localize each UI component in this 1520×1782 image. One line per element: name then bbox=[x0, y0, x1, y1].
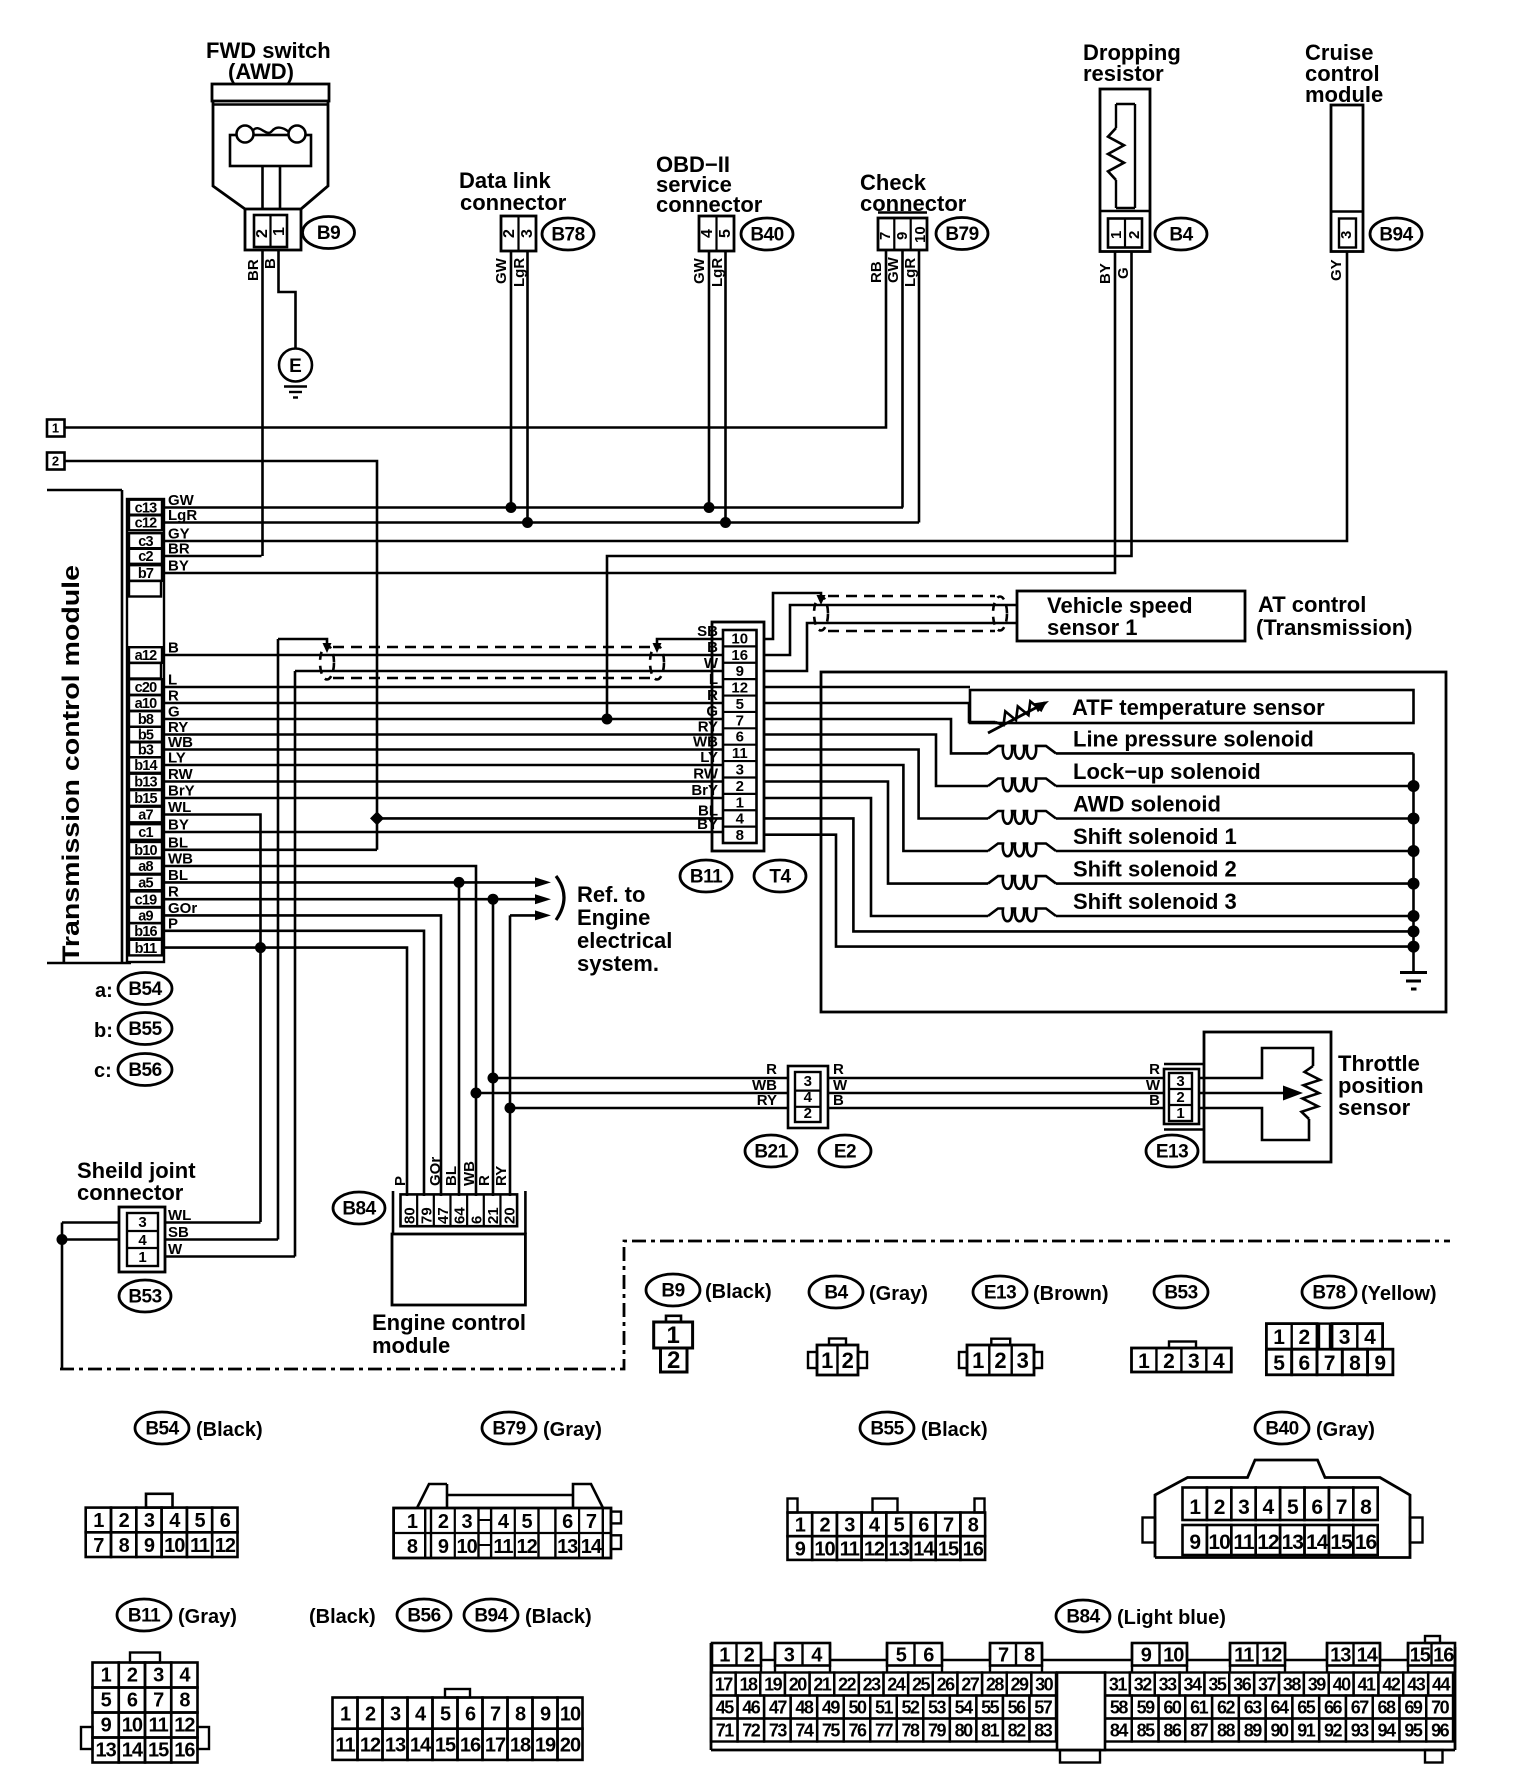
svg-text:16: 16 bbox=[1355, 1531, 1377, 1554]
svg-text:66: 66 bbox=[1324, 1698, 1343, 1718]
svg-text:1: 1 bbox=[93, 1510, 104, 1532]
svg-text:13: 13 bbox=[557, 1536, 578, 1558]
svg-text:11: 11 bbox=[1234, 1645, 1254, 1667]
svg-text:RY: RY bbox=[493, 1166, 510, 1186]
svg-text:10: 10 bbox=[731, 630, 748, 647]
svg-text:b16: b16 bbox=[134, 924, 157, 940]
svg-text:E2: E2 bbox=[834, 1142, 856, 1163]
svg-text:b10: b10 bbox=[134, 843, 157, 859]
svg-text:80: 80 bbox=[402, 1207, 419, 1224]
svg-text:2: 2 bbox=[819, 1515, 830, 1537]
svg-text:14: 14 bbox=[1357, 1645, 1379, 1667]
svg-text:3: 3 bbox=[1188, 1350, 1200, 1373]
svg-text:1: 1 bbox=[271, 227, 288, 236]
svg-text:W: W bbox=[704, 655, 719, 672]
svg-text:b14: b14 bbox=[134, 758, 157, 774]
svg-text:34: 34 bbox=[1183, 1675, 1202, 1695]
svg-text:10: 10 bbox=[1208, 1531, 1230, 1554]
svg-text:B11: B11 bbox=[128, 1606, 161, 1627]
svg-text:b11: b11 bbox=[135, 941, 158, 957]
svg-text:7: 7 bbox=[153, 1690, 164, 1712]
svg-text:13: 13 bbox=[385, 1735, 406, 1757]
svg-text:49: 49 bbox=[822, 1698, 841, 1718]
svg-text:47: 47 bbox=[435, 1207, 452, 1224]
svg-text:53: 53 bbox=[928, 1698, 947, 1718]
svg-text:B: B bbox=[707, 639, 718, 656]
svg-text:AT control: AT control bbox=[1258, 592, 1366, 617]
svg-text:40: 40 bbox=[1333, 1675, 1352, 1695]
svg-text:ATF temperature sensor: ATF temperature sensor bbox=[1072, 695, 1325, 720]
svg-text:6: 6 bbox=[918, 1515, 929, 1537]
svg-text:85: 85 bbox=[1137, 1721, 1156, 1741]
svg-text:BY: BY bbox=[697, 816, 718, 833]
svg-text:b15: b15 bbox=[134, 791, 157, 807]
svg-text:BL: BL bbox=[443, 1166, 460, 1186]
svg-text:23: 23 bbox=[863, 1675, 882, 1695]
svg-text:20: 20 bbox=[789, 1675, 808, 1695]
svg-text:84: 84 bbox=[1110, 1721, 1129, 1741]
svg-text:82: 82 bbox=[1008, 1721, 1027, 1741]
svg-text:7: 7 bbox=[1336, 1496, 1347, 1519]
svg-text:31: 31 bbox=[1109, 1675, 1128, 1695]
svg-text:5: 5 bbox=[1287, 1496, 1299, 1519]
svg-text:9: 9 bbox=[894, 232, 911, 240]
svg-text:15: 15 bbox=[1410, 1645, 1431, 1667]
svg-text:7: 7 bbox=[998, 1645, 1009, 1667]
svg-text:3: 3 bbox=[804, 1073, 812, 1090]
svg-text:3: 3 bbox=[390, 1703, 401, 1725]
svg-text:2: 2 bbox=[119, 1510, 130, 1532]
svg-text:(Brown): (Brown) bbox=[1033, 1283, 1109, 1305]
svg-text:8: 8 bbox=[1349, 1352, 1361, 1375]
svg-text:22: 22 bbox=[838, 1675, 857, 1695]
svg-text:R: R bbox=[1149, 1061, 1160, 1078]
svg-text:3: 3 bbox=[736, 761, 744, 778]
svg-text:44: 44 bbox=[1432, 1675, 1451, 1695]
svg-text:GOr: GOr bbox=[427, 1157, 444, 1186]
svg-text:9: 9 bbox=[144, 1535, 155, 1557]
svg-text:21: 21 bbox=[813, 1675, 832, 1695]
svg-text:63: 63 bbox=[1244, 1698, 1263, 1718]
svg-text:3: 3 bbox=[519, 229, 536, 238]
svg-text:8: 8 bbox=[1360, 1496, 1372, 1519]
svg-text:43: 43 bbox=[1407, 1675, 1426, 1695]
svg-text:B56: B56 bbox=[407, 1606, 440, 1627]
svg-text:2: 2 bbox=[127, 1665, 138, 1687]
svg-text:20: 20 bbox=[560, 1735, 581, 1757]
svg-text:5: 5 bbox=[736, 696, 744, 713]
svg-text:b13: b13 bbox=[134, 775, 157, 791]
svg-text:(Black): (Black) bbox=[196, 1419, 263, 1441]
svg-text:4: 4 bbox=[1213, 1350, 1225, 1373]
svg-text:15: 15 bbox=[148, 1740, 169, 1762]
svg-text:8: 8 bbox=[968, 1515, 979, 1537]
svg-text:72: 72 bbox=[742, 1721, 761, 1741]
svg-text:B84: B84 bbox=[1066, 1607, 1100, 1628]
svg-text:64: 64 bbox=[1270, 1698, 1289, 1718]
svg-text:5: 5 bbox=[1273, 1352, 1285, 1375]
svg-text:2: 2 bbox=[438, 1511, 449, 1533]
svg-text:33: 33 bbox=[1159, 1675, 1178, 1695]
svg-text:12: 12 bbox=[731, 680, 748, 697]
svg-text:B55: B55 bbox=[870, 1419, 904, 1440]
svg-text:7: 7 bbox=[943, 1515, 954, 1537]
svg-text:B53: B53 bbox=[1164, 1283, 1197, 1304]
svg-text:1: 1 bbox=[1138, 1350, 1150, 1373]
svg-text:3: 3 bbox=[153, 1665, 164, 1687]
svg-text:B9: B9 bbox=[317, 223, 340, 244]
svg-text:Engine: Engine bbox=[577, 905, 650, 930]
svg-text:93: 93 bbox=[1351, 1721, 1370, 1741]
svg-text:38: 38 bbox=[1283, 1675, 1302, 1695]
svg-text:70: 70 bbox=[1431, 1698, 1450, 1718]
svg-text:2: 2 bbox=[744, 1645, 755, 1667]
svg-text:2: 2 bbox=[52, 454, 59, 469]
svg-text:b:: b: bbox=[94, 1020, 113, 1042]
svg-text:B: B bbox=[262, 258, 279, 269]
svg-text:Transmission control module: Transmission control module bbox=[58, 565, 85, 963]
svg-text:71: 71 bbox=[716, 1721, 735, 1741]
svg-text:1: 1 bbox=[52, 421, 59, 436]
svg-text:58: 58 bbox=[1110, 1698, 1129, 1718]
svg-text:1: 1 bbox=[101, 1665, 112, 1687]
svg-text:B78: B78 bbox=[1312, 1283, 1345, 1304]
svg-text:1: 1 bbox=[719, 1645, 730, 1667]
svg-text:12: 12 bbox=[1257, 1531, 1279, 1554]
svg-text:11: 11 bbox=[335, 1735, 355, 1757]
svg-text:1: 1 bbox=[736, 794, 744, 811]
svg-text:6: 6 bbox=[923, 1645, 934, 1667]
svg-text:3: 3 bbox=[462, 1511, 473, 1533]
svg-text:39: 39 bbox=[1308, 1675, 1327, 1695]
svg-text:6: 6 bbox=[736, 729, 744, 746]
svg-text:5: 5 bbox=[896, 1645, 907, 1667]
svg-text:96: 96 bbox=[1431, 1721, 1450, 1741]
svg-text:12: 12 bbox=[516, 1536, 537, 1558]
svg-text:(Black): (Black) bbox=[525, 1606, 592, 1628]
svg-text:24: 24 bbox=[887, 1675, 906, 1695]
svg-text:B40: B40 bbox=[1265, 1419, 1298, 1440]
svg-text:6: 6 bbox=[468, 1216, 485, 1224]
svg-text:5: 5 bbox=[101, 1690, 112, 1712]
svg-text:36: 36 bbox=[1233, 1675, 1252, 1695]
svg-text:L: L bbox=[709, 671, 718, 688]
svg-text:1: 1 bbox=[138, 1249, 146, 1266]
svg-text:c20: c20 bbox=[135, 680, 158, 696]
svg-text:4: 4 bbox=[1364, 1326, 1376, 1349]
svg-text:B79: B79 bbox=[492, 1419, 525, 1440]
svg-text:41: 41 bbox=[1357, 1675, 1376, 1695]
svg-text:WB: WB bbox=[693, 734, 718, 751]
svg-text:E13: E13 bbox=[1156, 1142, 1188, 1163]
svg-text:2: 2 bbox=[501, 229, 518, 238]
svg-text:(Black): (Black) bbox=[921, 1419, 988, 1441]
svg-text:B9: B9 bbox=[661, 1281, 684, 1302]
svg-text:LgR: LgR bbox=[902, 258, 919, 287]
svg-text:88: 88 bbox=[1217, 1721, 1236, 1741]
svg-text:11: 11 bbox=[190, 1535, 210, 1557]
svg-text:1: 1 bbox=[1176, 1105, 1184, 1122]
svg-text:64: 64 bbox=[452, 1207, 469, 1224]
svg-text:9: 9 bbox=[101, 1715, 112, 1737]
svg-text:14: 14 bbox=[913, 1538, 935, 1560]
svg-text:9: 9 bbox=[1374, 1352, 1386, 1375]
svg-text:(Black): (Black) bbox=[705, 1281, 772, 1303]
svg-text:a8: a8 bbox=[138, 859, 153, 875]
svg-text:Shift solenoid 3: Shift solenoid 3 bbox=[1073, 889, 1237, 914]
svg-text:c12: c12 bbox=[135, 516, 158, 532]
svg-text:Shift solenoid 1: Shift solenoid 1 bbox=[1073, 824, 1237, 849]
svg-text:4: 4 bbox=[1263, 1496, 1275, 1519]
svg-text:B94: B94 bbox=[474, 1606, 508, 1627]
svg-text:92: 92 bbox=[1324, 1721, 1343, 1741]
svg-text:62: 62 bbox=[1217, 1698, 1236, 1718]
svg-text:3: 3 bbox=[784, 1645, 795, 1667]
svg-text:8: 8 bbox=[515, 1703, 526, 1725]
svg-text:51: 51 bbox=[875, 1698, 894, 1718]
svg-text:R: R bbox=[707, 687, 718, 704]
svg-text:c19: c19 bbox=[135, 892, 158, 908]
svg-text:30: 30 bbox=[1035, 1675, 1054, 1695]
svg-text:B4: B4 bbox=[824, 1283, 848, 1304]
svg-text:57: 57 bbox=[1034, 1698, 1053, 1718]
svg-text:3: 3 bbox=[1339, 1326, 1351, 1349]
svg-text:LgR: LgR bbox=[709, 258, 726, 287]
svg-text:61: 61 bbox=[1190, 1698, 1209, 1718]
svg-text:21: 21 bbox=[485, 1207, 502, 1224]
svg-text:10: 10 bbox=[560, 1703, 581, 1725]
svg-text:15: 15 bbox=[938, 1538, 959, 1560]
svg-text:11: 11 bbox=[732, 745, 748, 762]
svg-text:a10: a10 bbox=[135, 696, 158, 712]
svg-text:16: 16 bbox=[731, 647, 748, 664]
svg-text:9: 9 bbox=[1141, 1645, 1152, 1667]
svg-text:BY: BY bbox=[1097, 263, 1114, 284]
svg-text:46: 46 bbox=[742, 1698, 761, 1718]
svg-text:B54: B54 bbox=[128, 979, 162, 1000]
svg-text:13: 13 bbox=[889, 1538, 910, 1560]
svg-text:47: 47 bbox=[769, 1698, 788, 1718]
svg-text:26: 26 bbox=[937, 1675, 956, 1695]
svg-text:89: 89 bbox=[1244, 1721, 1263, 1741]
svg-text:3: 3 bbox=[138, 1214, 146, 1231]
svg-text:sensor 1: sensor 1 bbox=[1047, 615, 1138, 640]
svg-text:17: 17 bbox=[485, 1735, 506, 1757]
svg-text:3: 3 bbox=[1176, 1073, 1184, 1090]
svg-text:16: 16 bbox=[963, 1538, 984, 1560]
svg-text:5: 5 bbox=[717, 229, 734, 238]
svg-text:14: 14 bbox=[1306, 1531, 1329, 1554]
svg-text:(Gray): (Gray) bbox=[869, 1283, 928, 1305]
svg-text:11: 11 bbox=[840, 1538, 860, 1560]
svg-text:7: 7 bbox=[1324, 1352, 1336, 1375]
svg-text:Lock−up solenoid: Lock−up solenoid bbox=[1073, 759, 1261, 784]
svg-text:19: 19 bbox=[535, 1735, 556, 1757]
svg-text:RW: RW bbox=[693, 766, 719, 783]
svg-text:12: 12 bbox=[360, 1735, 381, 1757]
svg-text:(Light blue): (Light blue) bbox=[1117, 1607, 1226, 1629]
svg-text:1: 1 bbox=[667, 1322, 680, 1349]
svg-text:a12: a12 bbox=[135, 648, 158, 664]
svg-text:10: 10 bbox=[164, 1535, 185, 1557]
svg-text:86: 86 bbox=[1163, 1721, 1182, 1741]
svg-text:59: 59 bbox=[1137, 1698, 1156, 1718]
svg-text:G: G bbox=[1115, 267, 1132, 279]
svg-text:9: 9 bbox=[795, 1538, 806, 1560]
svg-text:50: 50 bbox=[848, 1698, 867, 1718]
svg-text:BrY: BrY bbox=[691, 782, 718, 799]
svg-text:9: 9 bbox=[438, 1536, 449, 1558]
svg-text:48: 48 bbox=[795, 1698, 814, 1718]
svg-text:6: 6 bbox=[1299, 1352, 1311, 1375]
svg-text:79: 79 bbox=[928, 1721, 947, 1741]
svg-text:42: 42 bbox=[1382, 1675, 1401, 1695]
svg-text:(AWD): (AWD) bbox=[228, 59, 294, 84]
svg-text:Engine control: Engine control bbox=[372, 1310, 526, 1335]
svg-text:c1: c1 bbox=[138, 825, 153, 841]
svg-text:29: 29 bbox=[1011, 1675, 1030, 1695]
svg-text:3: 3 bbox=[144, 1510, 155, 1532]
svg-text:10: 10 bbox=[122, 1715, 143, 1737]
svg-text:10: 10 bbox=[814, 1538, 835, 1560]
svg-text:B78: B78 bbox=[551, 225, 584, 246]
svg-text:7: 7 bbox=[736, 712, 744, 729]
svg-text:Line pressure solenoid: Line pressure solenoid bbox=[1073, 726, 1314, 751]
svg-text:LY: LY bbox=[700, 749, 718, 766]
svg-text:6: 6 bbox=[562, 1511, 573, 1533]
svg-text:15: 15 bbox=[435, 1735, 456, 1757]
svg-text:(Gray): (Gray) bbox=[543, 1419, 602, 1441]
svg-text:13: 13 bbox=[1282, 1531, 1304, 1554]
svg-text:R: R bbox=[833, 1061, 844, 1078]
svg-text:B53: B53 bbox=[128, 1287, 161, 1308]
svg-text:2: 2 bbox=[804, 1105, 812, 1122]
svg-text:5: 5 bbox=[522, 1511, 533, 1533]
svg-text:B11: B11 bbox=[690, 867, 723, 888]
svg-text:14: 14 bbox=[410, 1735, 432, 1757]
svg-text:2: 2 bbox=[1214, 1496, 1225, 1519]
svg-text:60: 60 bbox=[1163, 1698, 1182, 1718]
svg-text:LgR: LgR bbox=[511, 258, 528, 287]
svg-text:94: 94 bbox=[1378, 1721, 1397, 1741]
svg-text:8: 8 bbox=[407, 1536, 418, 1558]
svg-text:16: 16 bbox=[1433, 1645, 1454, 1667]
svg-text:1: 1 bbox=[1108, 231, 1125, 239]
svg-text:95: 95 bbox=[1404, 1721, 1423, 1741]
svg-text:2: 2 bbox=[842, 1348, 854, 1373]
svg-text:6: 6 bbox=[465, 1703, 476, 1725]
svg-text:P: P bbox=[392, 1176, 409, 1186]
svg-text:AWD solenoid: AWD solenoid bbox=[1073, 792, 1221, 817]
svg-text:2: 2 bbox=[736, 778, 744, 795]
svg-text:BY: BY bbox=[168, 558, 189, 575]
svg-text:17: 17 bbox=[715, 1675, 734, 1695]
svg-text:B: B bbox=[1149, 1092, 1160, 1109]
svg-text:16: 16 bbox=[174, 1740, 195, 1762]
svg-text:10: 10 bbox=[912, 226, 929, 243]
svg-text:RB: RB bbox=[868, 261, 885, 283]
svg-text:7: 7 bbox=[93, 1535, 104, 1557]
svg-text:20: 20 bbox=[502, 1207, 519, 1224]
svg-text:45: 45 bbox=[716, 1698, 735, 1718]
svg-text:8: 8 bbox=[119, 1535, 130, 1557]
svg-text:37: 37 bbox=[1258, 1675, 1277, 1695]
svg-text:GY: GY bbox=[1328, 259, 1345, 281]
svg-text:27: 27 bbox=[961, 1675, 980, 1695]
svg-text:32: 32 bbox=[1134, 1675, 1153, 1695]
svg-text:electrical: electrical bbox=[577, 928, 672, 953]
svg-text:1: 1 bbox=[821, 1348, 833, 1373]
svg-text:11: 11 bbox=[493, 1536, 513, 1558]
svg-text:11: 11 bbox=[1233, 1531, 1255, 1554]
svg-text:3: 3 bbox=[844, 1515, 855, 1537]
svg-text:78: 78 bbox=[902, 1721, 921, 1741]
svg-text:9: 9 bbox=[540, 1703, 551, 1725]
svg-text:RY: RY bbox=[757, 1092, 777, 1109]
svg-text:16: 16 bbox=[460, 1735, 481, 1757]
svg-text:2: 2 bbox=[254, 229, 271, 238]
svg-text:G: G bbox=[706, 703, 718, 720]
svg-text:GW: GW bbox=[493, 257, 510, 284]
svg-text:75: 75 bbox=[822, 1721, 841, 1741]
svg-text:B84: B84 bbox=[342, 1199, 376, 1220]
svg-text:sensor: sensor bbox=[1338, 1095, 1411, 1120]
svg-text:B56: B56 bbox=[128, 1060, 161, 1081]
svg-text:1: 1 bbox=[972, 1348, 984, 1373]
svg-text:B79: B79 bbox=[945, 224, 978, 245]
svg-text:12: 12 bbox=[1261, 1645, 1282, 1667]
svg-text:8: 8 bbox=[179, 1690, 190, 1712]
svg-text:2: 2 bbox=[1299, 1326, 1311, 1349]
svg-text:connector: connector bbox=[460, 190, 567, 215]
svg-text:3: 3 bbox=[1338, 231, 1355, 239]
svg-text:R: R bbox=[766, 1061, 777, 1078]
svg-text:E13: E13 bbox=[984, 1283, 1016, 1304]
svg-text:7: 7 bbox=[877, 232, 894, 240]
svg-text:GW: GW bbox=[691, 257, 708, 284]
svg-text:B4: B4 bbox=[1169, 225, 1193, 246]
svg-text:25: 25 bbox=[912, 1675, 931, 1695]
svg-text:4: 4 bbox=[138, 1232, 147, 1249]
svg-text:Ref. to: Ref. to bbox=[577, 882, 645, 907]
svg-text:65: 65 bbox=[1297, 1698, 1316, 1718]
svg-text:14: 14 bbox=[581, 1536, 603, 1558]
svg-text:6: 6 bbox=[1311, 1496, 1322, 1519]
svg-text:B: B bbox=[833, 1092, 844, 1109]
svg-text:83: 83 bbox=[1034, 1721, 1053, 1741]
svg-text:(Gray): (Gray) bbox=[1316, 1419, 1375, 1441]
svg-text:SB: SB bbox=[697, 623, 718, 640]
svg-text:56: 56 bbox=[1008, 1698, 1027, 1718]
svg-text:BR: BR bbox=[245, 259, 262, 281]
svg-text:4: 4 bbox=[699, 229, 716, 238]
svg-text:52: 52 bbox=[902, 1698, 921, 1718]
svg-text:connector: connector bbox=[77, 1180, 184, 1205]
svg-text:8: 8 bbox=[736, 827, 744, 844]
svg-text:67: 67 bbox=[1351, 1698, 1370, 1718]
svg-text:c:: c: bbox=[94, 1060, 112, 1082]
svg-text:(Yellow): (Yellow) bbox=[1361, 1283, 1437, 1305]
svg-text:(Gray): (Gray) bbox=[178, 1606, 237, 1628]
svg-text:80: 80 bbox=[955, 1721, 974, 1741]
svg-text:4: 4 bbox=[804, 1089, 813, 1106]
svg-text:E: E bbox=[289, 356, 302, 377]
svg-text:1: 1 bbox=[1189, 1496, 1201, 1519]
svg-text:10: 10 bbox=[456, 1536, 477, 1558]
svg-text:19: 19 bbox=[764, 1675, 783, 1695]
svg-text:12: 12 bbox=[174, 1715, 195, 1737]
svg-text:74: 74 bbox=[795, 1721, 814, 1741]
